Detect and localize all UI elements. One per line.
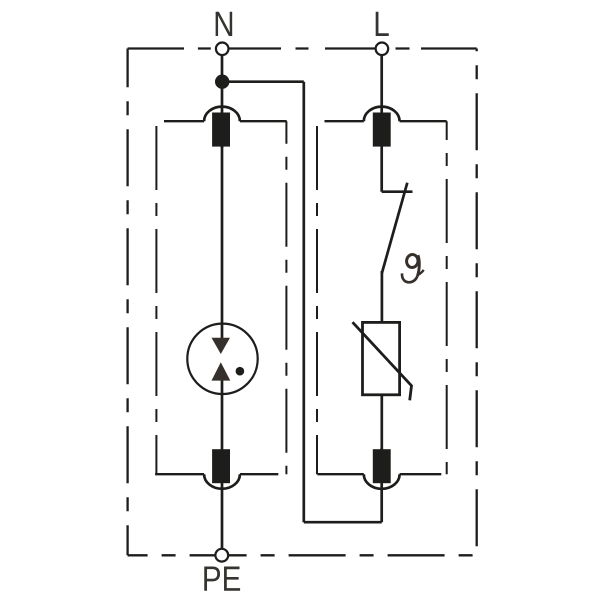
wire right branch bottom riser	[380, 448, 383, 522]
terminal line bottom-right module	[317, 473, 441, 475]
thermal disconnector fixed contact line	[382, 190, 413, 193]
wire junction horizontal from node to bypass	[222, 80, 304, 83]
spark gap electrode triangle lower (points up)	[212, 362, 231, 380]
spark gap trigger dot	[236, 367, 245, 376]
wire varistor to bottom terminal block	[380, 395, 383, 450]
module box right, left side (dashed)	[316, 121, 318, 474]
outer enclosure border right (dash-dot chain line)	[476, 49, 478, 556]
module box left, left side (dashed)	[155, 121, 157, 474]
wire left branch lower segment from spark gap to PE	[221, 380, 224, 549]
wire inside spark gap lower	[221, 380, 224, 395]
junction node on N conductor	[215, 75, 229, 89]
terminal L circle	[376, 43, 389, 56]
terminal block top-right (filled)	[373, 113, 391, 147]
terminal arc top-right module	[364, 107, 400, 122]
terminal line top-left module	[164, 120, 287, 122]
varistor body	[363, 322, 400, 394]
outer enclosure border bottom (dash-dot chain line)	[128, 554, 477, 556]
label PE	[204, 567, 220, 591]
spark gap electrode triangle upper (points down)	[212, 338, 231, 354]
thermal disconnector blade (diagonal)	[382, 183, 407, 273]
terminal N circle	[216, 43, 229, 56]
terminal block bottom-right (filled)	[373, 449, 391, 483]
wire left branch upper segment into spark gap	[221, 146, 224, 339]
terminal line bottom-left module	[155, 473, 278, 475]
wire bypass vertical between modules	[302, 82, 305, 523]
wire switch to varistor	[381, 271, 384, 323]
terminal arc bottom-right module	[364, 474, 400, 489]
outer enclosure border left (dash-dot chain line)	[126, 49, 128, 556]
outer enclosure border top (dash-dot chain line)	[128, 47, 477, 49]
wire N drop from terminal to upper terminal block	[221, 55, 224, 148]
terminal arc bottom-left module	[204, 474, 240, 489]
terminal arc top-left module	[204, 107, 240, 122]
terminal block top-left (filled)	[212, 113, 230, 147]
terminal block bottom-left (filled)	[212, 449, 230, 483]
spark gap F1 circle	[187, 324, 257, 394]
wire inside spark gap upper	[221, 324, 224, 339]
terminal PE circle	[215, 549, 228, 562]
terminal line top-right module	[325, 120, 447, 122]
module box right, right side (dashed)	[446, 121, 448, 474]
varistor diagonal stroke with tail	[353, 322, 412, 400]
wire L drop from terminal to switch	[380, 56, 383, 192]
wire bypass bottom horizontal	[304, 521, 382, 524]
label L	[376, 12, 389, 36]
thermal symbol theta	[402, 254, 424, 283]
label N	[216, 12, 233, 36]
module box left, right side (dashed)	[285, 121, 287, 474]
